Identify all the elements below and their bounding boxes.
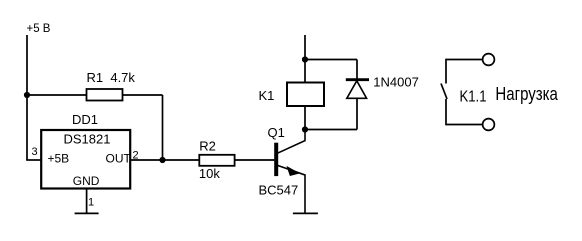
- svg-text:1N4007: 1N4007: [373, 74, 419, 89]
- wire R1 to corner: [123, 94, 163, 96]
- svg-text:K1.1: K1.1: [460, 89, 487, 106]
- junction node collector/relay/diode: [302, 126, 308, 132]
- svg-text:GND: GND: [73, 174, 100, 188]
- IC DD1 DS1821 body: [41, 130, 130, 189]
- wire contact top: [446, 59, 483, 61]
- wire relay coil bottom to junction: [304, 106, 306, 130]
- wire corner down to OUT net: [162, 95, 164, 160]
- diode 1N4007 cathode bar: [346, 78, 369, 81]
- ground symbol DD1: [75, 212, 99, 214]
- wire DD1 pin 1 to ground: [86, 189, 88, 214]
- wire diode cathode lead: [356, 60, 358, 80]
- svg-text:R2: R2: [199, 139, 216, 154]
- contact fixed lead top: [445, 59, 447, 84]
- diode 1N4007 triangle: [347, 81, 367, 99]
- wire rail to DD1 pin 3: [26, 159, 41, 161]
- resistor R2: [199, 155, 234, 166]
- wire diode anode lead: [356, 98, 358, 129]
- Q1 collector lead: [278, 130, 306, 154]
- svg-text:+5B: +5B: [48, 152, 70, 166]
- wire R2 to Q1 base: [235, 159, 275, 161]
- svg-text:OUT: OUT: [106, 152, 132, 166]
- wire DD1 OUT pin 2 to R2: [130, 159, 199, 161]
- junction node R1/OUT: [159, 157, 165, 163]
- svg-text:1: 1: [88, 197, 94, 209]
- contact blade K1.1: [441, 84, 447, 100]
- svg-text:10k: 10k: [199, 166, 220, 181]
- junction node relay/+V/diode: [302, 56, 308, 62]
- wire +5V rail vertical: [26, 35, 28, 160]
- svg-text:+5 В: +5 В: [27, 23, 51, 35]
- contact K1.1 bottom terminal circle: [483, 119, 495, 131]
- svg-text:K1: K1: [259, 88, 275, 103]
- Q1 emitter arrow: [287, 167, 298, 176]
- contact K1.1 top terminal circle: [483, 54, 495, 66]
- relay coil K1: [287, 83, 324, 107]
- wire diode bottom to junction: [305, 129, 357, 131]
- svg-text:DS1821: DS1821: [64, 132, 111, 147]
- transistor Q1 base bar: [274, 143, 278, 176]
- svg-text:Q1: Q1: [268, 125, 285, 140]
- wire relay coil top: [304, 60, 306, 83]
- svg-text:BC547: BC547: [259, 183, 299, 198]
- junction node +5V/R1: [24, 92, 30, 98]
- Q1 emitter lead: [278, 165, 306, 213]
- svg-text:Нагрузка: Нагрузка: [495, 83, 558, 104]
- resistor R1: [87, 89, 123, 101]
- wire junction to diode top: [305, 59, 357, 61]
- wire contact bottom: [446, 124, 483, 126]
- svg-text:DD1: DD1: [72, 112, 98, 127]
- svg-text:3: 3: [32, 146, 38, 158]
- contact fixed lead bottom: [445, 99, 447, 125]
- svg-text:R1 4.7k: R1 4.7k: [87, 70, 136, 85]
- wire +5V to R1: [27, 94, 87, 96]
- wire supply stub above relay: [304, 35, 306, 60]
- ground symbol Q1 emitter: [293, 212, 318, 214]
